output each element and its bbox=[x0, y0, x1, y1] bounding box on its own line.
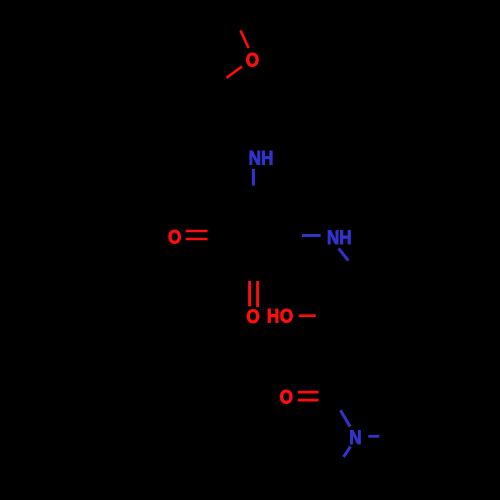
svg-text:NH: NH bbox=[249, 147, 274, 169]
svg-text:O: O bbox=[168, 225, 181, 247]
svg-text:O: O bbox=[246, 305, 259, 327]
svg-text:O: O bbox=[246, 49, 259, 71]
svg-text:H: H bbox=[267, 304, 279, 326]
svg-text:NH: NH bbox=[327, 226, 352, 248]
svg-text:O: O bbox=[280, 305, 293, 327]
svg-text:O: O bbox=[280, 385, 293, 407]
svg-text:N: N bbox=[349, 426, 361, 448]
